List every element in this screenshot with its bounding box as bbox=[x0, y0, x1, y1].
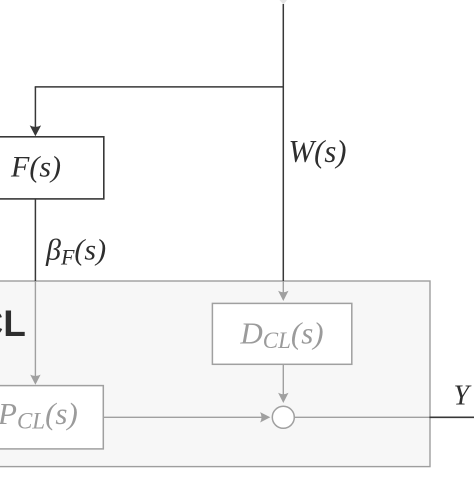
wire: D_CL(s) down to summing junction bbox=[282, 364, 284, 394]
arrowhead into F(s) bbox=[30, 125, 41, 136]
arrowhead into D_CL(s) bbox=[278, 291, 288, 301]
wire: summing junction to panel edge bbox=[294, 416, 430, 418]
wire: P_CL(s) to summing junction bbox=[103, 416, 261, 418]
arrowhead into P_CL(s) bbox=[30, 375, 40, 385]
wire: vertical drop into F(s) bbox=[34, 87, 36, 127]
block P_CL(s) bbox=[0, 386, 103, 449]
wire: W(s) input vertical from top bbox=[282, 4, 284, 281]
arrowhead into summing junction (from top) bbox=[278, 393, 288, 403]
svg-text:W(s): W(s) bbox=[289, 133, 347, 169]
wire: branch to F(s) horizontal bbox=[35, 86, 284, 88]
summing junction circle bbox=[272, 406, 294, 428]
wire: gray continuation of W(s) into D_CL(s) bbox=[282, 281, 284, 293]
svg-text:F(s): F(s) bbox=[10, 150, 61, 183]
arrowhead into summing junction (from left) bbox=[260, 412, 270, 422]
faint clipped mark above W(s) line at top edge bbox=[280, 0, 288, 5]
wire: output Y (black, outside panel) bbox=[429, 416, 474, 418]
block F(s) bbox=[0, 137, 104, 199]
svg-text:CL: CL bbox=[0, 303, 26, 344]
block D_CL(s) bbox=[212, 303, 351, 364]
svg-text:βF(s): βF(s) bbox=[45, 234, 106, 270]
wire: gray continuation into P_CL(s) bbox=[34, 281, 36, 376]
panel CL (closed-loop shaded region) bbox=[0, 281, 430, 467]
wire: beta_F(s) from F(s) down to panel bbox=[34, 199, 36, 282]
